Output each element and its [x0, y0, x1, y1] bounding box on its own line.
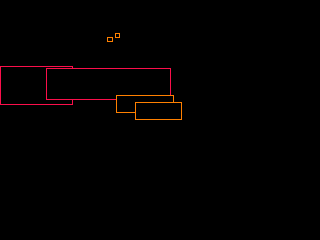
cell block A (large left red rectangle) [1, 67, 73, 105]
small orange square 2 (upper right of pair) [116, 34, 120, 38]
cell block D (lower orange rectangle, bottom right) [136, 103, 182, 120]
cell block C (upper orange rectangle, bottom right) [117, 96, 174, 113]
cell block B (large wide red rectangle, overlaps A) [47, 69, 171, 100]
floorplan canvas [0, 0, 200, 133]
small orange square 1 (lower left of pair) [108, 38, 113, 42]
